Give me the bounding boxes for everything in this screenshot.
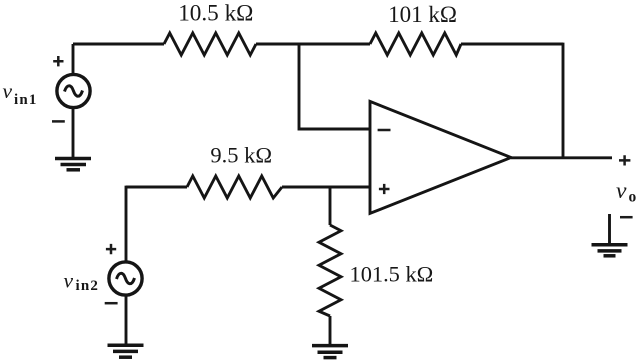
svg-text:v: v [64,268,74,292]
svg-text:in2: in2 [76,278,100,294]
svg-text:101.5 kΩ: 101.5 kΩ [350,262,434,287]
svg-text:in1: in1 [14,92,38,108]
svg-text:9.5 kΩ: 9.5 kΩ [210,142,272,167]
svg-text:101 kΩ: 101 kΩ [388,2,457,27]
svg-text:v: v [616,178,627,204]
svg-text:v: v [3,79,13,103]
svg-text:10.5 kΩ: 10.5 kΩ [178,1,253,27]
svg-text:o: o [629,188,637,205]
